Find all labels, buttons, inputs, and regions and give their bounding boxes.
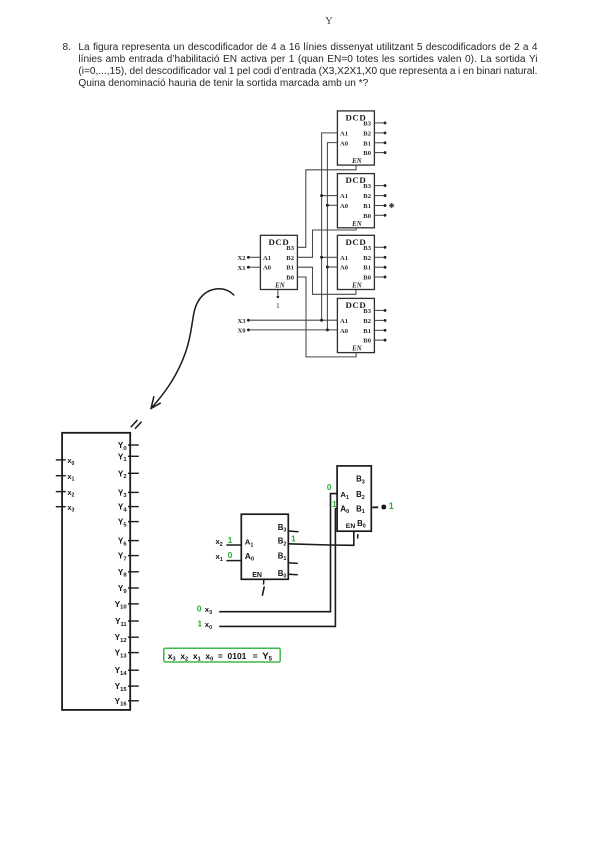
svg-text:B3: B3 [286,245,294,252]
svg-text:x1: x1 [216,552,223,563]
pin Y12 of big decoder [115,633,139,644]
svg-text:B0: B0 [363,213,371,220]
wire U7.B1 output dashed [372,506,378,508]
svg-text:Y12: Y12 [115,633,127,644]
svg-text:B2: B2 [363,193,371,200]
pin x0 of big decoder [56,456,75,467]
svg-text:B2: B2 [286,255,294,262]
node x3 source label (green 0) [197,603,212,616]
hand-drawn decoder U6 body [241,514,288,579]
wire x1 to U6.A0 [226,560,241,562]
U5 body [337,298,374,352]
node X2 input label [238,255,250,262]
wire X3 branch to U3.A1 [320,194,337,197]
svg-text:B0: B0 [363,338,371,345]
page header Y [325,15,333,27]
wire X3 vertical riser [322,133,338,320]
svg-text:B3: B3 [356,475,365,486]
node X3 input label [238,318,250,325]
svg-text:Y0: Y0 [118,441,127,452]
node constant 1 [276,295,280,310]
svg-text:Y5: Y5 [118,518,127,529]
wire X0 vertical riser [327,143,337,330]
svg-text:1: 1 [228,535,233,545]
svg-text:A0: A0 [263,265,272,272]
wire X0 branch to U4.A0 [326,266,338,269]
value 1 tick at U7.EN wire [357,534,359,539]
svg-text:Y14: Y14 [115,666,128,677]
svg-text:B0: B0 [278,569,287,580]
svg-text:B3: B3 [278,523,287,534]
svg-text:Y11: Y11 [115,617,127,628]
wire U1.EN constant stub [277,290,279,296]
node x0 source label (green 1) [197,618,212,631]
svg-text:B2: B2 [278,537,287,548]
svg-text:B2: B2 [356,490,365,501]
svg-text:1: 1 [389,501,395,512]
svg-text:A0: A0 [340,265,349,272]
pin Y9 of big decoder [118,584,139,595]
pin x1 of big decoder [56,472,75,483]
wire U6.EN stub [263,579,265,584]
svg-text:EN: EN [274,283,286,290]
wire U2 output B1 stub [374,141,386,144]
wire X2 to U1.A1 [250,256,261,258]
U2 body [337,111,374,165]
svg-text:B0: B0 [286,275,294,282]
svg-text:0: 0 [327,483,332,492]
wire U1.B2 to U3.EN [297,228,356,257]
svg-text:B0: B0 [363,150,371,157]
wire U4 output B1 stub [374,266,386,269]
wire U6.B1 stub [288,562,298,565]
hand-drawn break mark // [131,420,142,429]
svg-text:Y6: Y6 [118,537,127,548]
U3 body [337,174,374,228]
wire U1.B0 to U5.EN [297,277,356,357]
wire U5 output B2 stub [374,319,386,322]
svg-text:B3: B3 [363,121,371,128]
svg-text:B3: B3 [363,245,371,252]
svg-text:A1: A1 [340,193,348,200]
decoder U5 (DCD 2-to-4) [337,298,374,352]
asterisk marker on U3 B1 output [389,203,394,208]
U1 body [260,235,297,289]
result box (green) [164,648,280,663]
pin Y15 of big decoder [115,682,139,693]
svg-text:A0: A0 [340,504,349,515]
wire U3 output B2 stub [374,194,386,197]
svg-text:A1: A1 [263,255,271,262]
wire x2 to U6.A1 [226,544,241,546]
svg-text:x1: x1 [67,472,74,483]
hand-drawn 4-to-16 decoder box [62,433,130,710]
svg-text:Y8: Y8 [118,568,127,579]
svg-text:EN: EN [351,283,363,290]
pin x3 of big decoder [56,503,75,514]
svg-text:B1: B1 [356,504,365,515]
wire U6.B3 stub [288,530,298,533]
wire U3 output B0 stub [374,214,386,217]
svg-text:1: 1 [197,618,202,628]
node x2 input of U6 [216,535,233,548]
svg-text:EN: EN [351,221,363,228]
svg-text:B3: B3 [363,308,371,315]
svg-text:Y16: Y16 [115,697,128,708]
pin x2 of big decoder [56,488,75,499]
svg-text:0: 0 [197,603,202,613]
wire x0 to U7.A0 [219,509,337,627]
pin Y8 of big decoder [118,568,139,579]
wire U1.B3 to U2.EN [297,165,356,247]
svg-text:EN: EN [252,572,262,579]
svg-text:0: 0 [228,550,233,560]
svg-text:A1: A1 [340,131,348,138]
wire U2 output B2 stub [374,131,386,134]
svg-text:A0: A0 [340,140,349,147]
svg-text:1: 1 [276,302,280,310]
svg-text:B1: B1 [363,328,371,335]
node X0 input label [238,328,250,335]
asterisk marker on U7.B1 [381,505,386,510]
svg-text:A1: A1 [245,538,254,549]
svg-text:A1: A1 [340,255,348,262]
svg-text:Y10: Y10 [115,600,127,611]
wire X1 to U1.A0 [250,266,261,268]
wire X3 horizontal to U5.A1 [250,319,338,321]
svg-text:EN: EN [351,158,363,165]
svg-text:EN: EN [346,523,356,530]
value 1 at U6.EN [262,587,264,595]
svg-text:x3 x2 x1 x0 = 0101 = Y5: x3 x2 x1 x0 = 0101 = Y5 [168,651,273,663]
wire X0 horizontal to U5.A0 [250,329,338,331]
svg-text:Y15: Y15 [115,682,128,693]
svg-text:B2: B2 [363,131,371,138]
decoder U2 (DCD 2-to-4) [337,111,374,165]
decoder U1 (DCD 2-to-4) [260,235,297,289]
svg-text:Y13: Y13 [115,649,128,660]
wire U1.B1 to U4.EN [297,267,356,294]
U4 body [337,235,374,289]
pin Y6 of big decoder [118,537,139,548]
wire X0 branch to U3.A0 [326,204,338,207]
pin Y1 of big decoder [118,452,139,463]
decoder U4 (DCD 2-to-4) [337,235,374,289]
pin Y4 of big decoder [118,503,139,514]
wire U5 output B1 stub [374,329,386,332]
wire U3 output B3 stub [374,184,386,187]
wire U6.B2 to U7.EN [288,531,354,545]
pin Y7 of big decoder [118,552,139,563]
pin Y10 of big decoder [115,600,139,611]
svg-text:B1: B1 [278,551,287,562]
svg-text:1: 1 [291,533,296,543]
svg-text:Y2: Y2 [118,469,127,480]
pin Y16 of big decoder [115,697,139,708]
svg-text:A1: A1 [340,318,348,325]
pin Y11 of big decoder [115,617,139,628]
pin Y3 of big decoder [118,488,139,499]
svg-text:x0: x0 [67,456,74,467]
svg-text:Y3: Y3 [118,488,127,499]
pin Y5 of big decoder [118,518,139,529]
svg-text:A1: A1 [340,490,349,501]
svg-text:B1: B1 [363,140,371,147]
svg-text:B1: B1 [363,265,371,272]
junction X3/U5.A1 [320,319,323,322]
svg-text:B2: B2 [363,255,371,262]
wire U4 output B3 stub [374,246,386,249]
wire U4 output B2 stub [374,256,386,259]
svg-text:Y9: Y9 [118,584,127,595]
pin Y13 of big decoder [115,649,139,660]
pin Y14 of big decoder [115,666,139,677]
node X1 input label [238,265,250,272]
svg-text:B1: B1 [363,203,371,210]
svg-text:X0: X0 [238,328,247,335]
svg-text:x2: x2 [216,537,223,548]
hand-drawn decoder U7 body [337,466,371,531]
pin Y0 of big decoder [118,441,139,452]
svg-text:EN: EN [351,346,363,353]
svg-text:Y1: Y1 [118,452,127,463]
wire x3 to U7.A1 [219,494,337,612]
svg-text:B3: B3 [363,183,371,190]
svg-text:B1: B1 [286,265,294,272]
svg-text:X1: X1 [238,265,246,272]
wire U6.B0 stub [288,573,298,576]
node x1 input of U6 [216,550,233,563]
svg-text:X3: X3 [238,318,247,325]
hand-drawn curved arrow [151,289,234,409]
wire U2 output B0 stub [374,151,386,154]
svg-text:x3: x3 [67,503,74,514]
problem statement paragraph [63,42,538,91]
wire U4 output B0 stub [374,276,386,279]
svg-text:Y7: Y7 [118,552,127,563]
pin Y2 of big decoder [118,469,139,480]
svg-text:B0: B0 [363,275,371,282]
wire U5 output B0 stub [374,339,386,342]
svg-text:x3: x3 [205,605,212,616]
wire U2 output B3 stub [374,121,386,124]
svg-text:1: 1 [332,499,337,509]
svg-text:A0: A0 [340,203,349,210]
svg-text:Y4: Y4 [118,503,127,514]
svg-text:B2: B2 [363,318,371,325]
decoder U3 (DCD 2-to-4) [337,174,374,228]
svg-text:x2: x2 [67,488,74,499]
svg-text:A0: A0 [340,328,349,335]
wire X3 branch to U4.A1 [320,256,337,259]
wire U3 output B1 stub [374,204,386,207]
svg-text:x0: x0 [205,620,212,631]
svg-text:A0: A0 [245,551,254,563]
junction X0/U5.A0 [326,328,329,331]
wire U5 output B3 stub [374,309,386,312]
svg-text:B0: B0 [357,519,366,530]
svg-text:X2: X2 [238,255,247,262]
